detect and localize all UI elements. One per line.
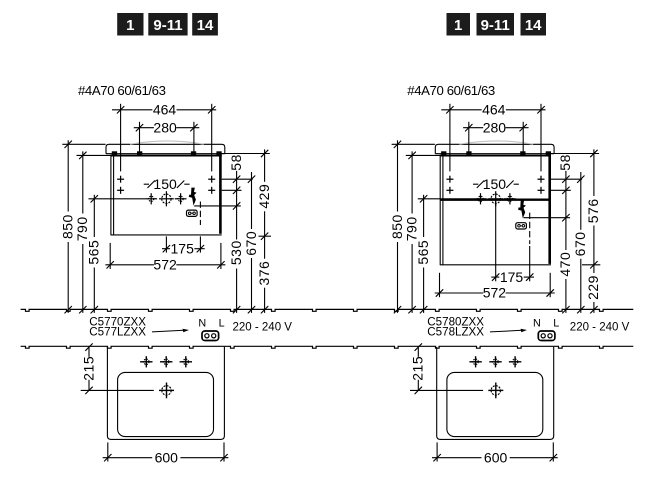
svg-text:58: 58	[557, 154, 573, 171]
dim 215 left	[88, 346, 90, 357]
drawer fixing cross marks right	[449, 176, 451, 183]
svg-text:175: 175	[500, 269, 524, 285]
svg-text:565: 565	[415, 240, 431, 265]
svg-text:175: 175	[171, 240, 195, 256]
svg-text:572: 572	[153, 257, 177, 273]
svg-text:14: 14	[525, 17, 542, 34]
installer badge 1 left	[117, 13, 143, 36]
dim 600 right	[436, 442, 438, 461]
dim 150 right	[473, 183, 478, 185]
electrical: socket height line right	[524, 217, 571, 219]
faucet hole symbols front right	[418, 198, 475, 200]
electrical: socket height line left	[194, 205, 241, 207]
electrical: lightning bolt left	[189, 188, 197, 206]
svg-text:429: 429	[256, 184, 272, 209]
left dim lines 850 790 565 left	[67, 140, 69, 313]
arrow to plug right	[490, 330, 522, 332]
washbasin front view left	[106, 144, 225, 153]
svg-text:58: 58	[228, 154, 244, 171]
right side extension rows left	[222, 178, 253, 180]
svg-text:215: 215	[410, 356, 426, 381]
svg-text:L: L	[219, 317, 225, 329]
plug symbol left	[202, 331, 219, 341]
dim line 670 right	[580, 172, 582, 313]
svg-text:670: 670	[243, 231, 259, 256]
dim 464 right	[441, 109, 481, 111]
svg-text:280: 280	[153, 120, 177, 136]
svg-text:280: 280	[483, 120, 507, 136]
svg-text:14: 14	[197, 17, 214, 34]
installer badge 9-11 left	[148, 13, 187, 36]
dim 280 right	[463, 127, 483, 129]
washbasin plan view left	[107, 347, 224, 440]
left dim lines 850 790 565 right	[397, 140, 399, 313]
svg-text:600: 600	[155, 449, 179, 465]
svg-text:1: 1	[126, 17, 134, 34]
electrical: socket position dashed line left	[199, 202, 201, 226]
dim line 58/530 left	[236, 171, 238, 313]
svg-text:C577LZXX: C577LZXX	[89, 326, 146, 339]
svg-text:L: L	[553, 317, 559, 329]
installer badge 14 left	[192, 13, 218, 36]
svg-text:229: 229	[585, 275, 601, 300]
vanity cabinet outline left	[111, 155, 222, 157]
dim 215 right	[417, 346, 419, 357]
washbasin fixing blocks left	[112, 151, 117, 155]
installer badge 14 right	[521, 13, 547, 36]
installer badge 1 right	[447, 13, 471, 36]
dim 600 left	[107, 442, 109, 461]
svg-text:N: N	[198, 317, 206, 329]
svg-text:572: 572	[483, 285, 507, 301]
washbasin front view right	[435, 144, 554, 153]
svg-text:1: 1	[454, 17, 462, 34]
svg-text:600: 600	[484, 449, 508, 465]
drawer fixing cross marks left	[120, 176, 122, 183]
electrical: lightning bolt right	[518, 200, 526, 218]
svg-text:220 - 240 V: 220 - 240 V	[233, 321, 293, 333]
svg-text:N: N	[533, 317, 541, 329]
dim 572 left	[109, 243, 111, 269]
svg-text:#4A70 60/61/63: #4A70 60/61/63	[78, 83, 166, 98]
dim 572 right	[439, 273, 441, 297]
svg-text:150: 150	[483, 176, 507, 192]
svg-text:220 - 240 V: 220 - 240 V	[570, 321, 630, 333]
svg-text:C578LZXX: C578LZXX	[427, 326, 484, 339]
svg-text:670: 670	[572, 231, 588, 256]
svg-text:850: 850	[389, 214, 405, 239]
svg-text:565: 565	[86, 240, 102, 265]
electrical: socket symbol front right	[516, 223, 527, 229]
dim line 429/376 left	[264, 149, 266, 313]
right side extension rows right	[551, 178, 582, 180]
dim line 576/229 right	[593, 149, 595, 313]
svg-text:464: 464	[153, 102, 177, 118]
wall line upper	[21, 309, 634, 311]
svg-text:150: 150	[153, 176, 177, 192]
wall line lower	[21, 346, 634, 348]
svg-text:464: 464	[482, 102, 506, 118]
svg-text:9-11: 9-11	[153, 17, 182, 34]
dim line 58/470 right	[565, 171, 567, 313]
washbasin plan view right	[437, 347, 554, 440]
plan drain crosshair right	[495, 383, 497, 399]
dim 464 left	[112, 109, 152, 111]
dim 175 right	[495, 201, 497, 281]
arrow to plug left	[152, 330, 184, 332]
plan faucet hole crosses left	[145, 356, 147, 367]
electrical: socket position dashed line right	[529, 213, 531, 244]
svg-text:576: 576	[585, 198, 601, 223]
dim 150 left	[144, 183, 149, 185]
faucet hole symbols front left	[89, 198, 146, 200]
installer badge 9-11 right	[477, 13, 515, 36]
plan drain crosshair left	[166, 383, 168, 399]
plug symbol right	[538, 331, 555, 341]
vanity cabinet outline right	[440, 155, 551, 157]
drawer divider line right	[440, 199, 551, 201]
plan faucet hole crosses right	[475, 356, 477, 367]
svg-text:9-11: 9-11	[481, 17, 510, 34]
svg-text:376: 376	[256, 261, 272, 286]
washbasin fixing blocks right	[441, 151, 446, 155]
dim 175 left	[165, 236, 167, 252]
electrical: socket symbol front left	[187, 210, 198, 216]
dim 280 left	[134, 127, 154, 129]
svg-text:215: 215	[80, 356, 96, 381]
svg-text:850: 850	[60, 214, 76, 239]
svg-text:530: 530	[228, 240, 244, 265]
dim line 670 left	[251, 172, 253, 313]
svg-text:#4A70 60/61/63: #4A70 60/61/63	[407, 83, 495, 98]
svg-text:470: 470	[557, 252, 573, 277]
